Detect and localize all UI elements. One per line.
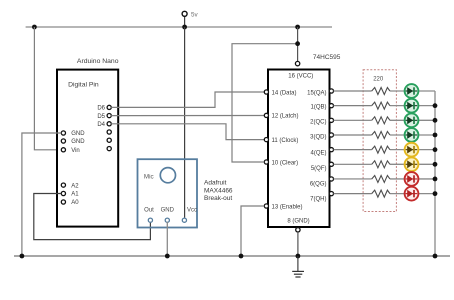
svg-text:4(QE): 4(QE) xyxy=(310,150,326,156)
svg-text:A1: A1 xyxy=(71,192,79,198)
svg-text:10 (Clear): 10 (Clear) xyxy=(272,160,299,166)
ground symbol xyxy=(292,256,304,277)
junction 5v-U2 xyxy=(295,25,300,30)
LED D3 xyxy=(405,113,419,127)
junction Enable-ground xyxy=(239,254,244,259)
svg-text:GND: GND xyxy=(71,131,85,137)
junction LED row 6 to cathode bus xyxy=(433,162,438,167)
svg-text:14 (Data): 14 (Data) xyxy=(272,90,297,96)
wire cathode bus right xyxy=(434,91,436,256)
wire output row 2 xyxy=(334,105,372,107)
junction GND-left xyxy=(20,254,25,259)
pin GND xyxy=(61,139,85,145)
wire ground bus bottom xyxy=(14,255,450,257)
wire pin10 Clear to VCC xyxy=(232,44,298,162)
wire mic GND to ground bus xyxy=(166,222,168,256)
pin A1 xyxy=(61,191,79,197)
svg-text:74HC595: 74HC595 xyxy=(313,54,341,61)
junction 5v-mic xyxy=(182,25,187,30)
microphone element circle xyxy=(160,168,175,183)
pin 13 (Enable) xyxy=(264,204,302,210)
junction 5v-Vin xyxy=(32,25,37,30)
resistor R7 220 xyxy=(372,175,390,182)
LED D5 xyxy=(405,143,419,157)
svg-text:A0: A0 xyxy=(71,200,79,206)
resistor R6 220 xyxy=(372,161,390,168)
resistor R8 220 xyxy=(372,190,390,197)
Arduino Nano U1 box xyxy=(57,70,118,227)
svg-text:8 (GND): 8 (GND) xyxy=(287,219,309,225)
resistor R5 220 xyxy=(372,146,390,153)
svg-text:13 (Enable): 13 (Enable) xyxy=(272,204,303,210)
LED D7 xyxy=(405,172,419,186)
svg-text:5v: 5v xyxy=(191,11,199,18)
svg-text:220: 220 xyxy=(373,77,384,83)
wire output row 8 xyxy=(334,193,372,195)
wire D4 to pin11 Clock xyxy=(111,124,264,140)
resistor R2 220 xyxy=(372,102,390,109)
wire A1 to mic Out xyxy=(34,194,151,240)
svg-text:7(QH): 7(QH) xyxy=(310,197,326,203)
wire output row 6 xyxy=(334,163,372,165)
wire pin8 GND to ground bus xyxy=(297,232,299,256)
svg-text:1(QB): 1(QB) xyxy=(310,105,326,111)
wire output row 4 xyxy=(334,134,372,136)
pin digital col 2 xyxy=(107,114,111,118)
pin 15(QA) xyxy=(307,89,333,97)
svg-text:16 (VCC): 16 (VCC) xyxy=(288,74,313,80)
svg-text:D6: D6 xyxy=(97,106,105,112)
svg-text:MAX4466: MAX4466 xyxy=(204,188,233,195)
svg-text:D4: D4 xyxy=(97,122,105,128)
wire output row 3 xyxy=(334,119,372,121)
LED D1 xyxy=(405,84,419,98)
junction U2 GND xyxy=(296,254,301,259)
pin 10 (Clear) xyxy=(264,160,298,166)
wire 5v to mic Vcc xyxy=(184,27,186,218)
pin digital col 1 xyxy=(107,105,111,109)
pin digital col 3 xyxy=(107,122,111,126)
svg-text:D5: D5 xyxy=(97,114,105,120)
mic pin Out xyxy=(144,207,154,222)
pin 16 (VCC) xyxy=(288,61,313,79)
mic pin Vcc xyxy=(182,207,197,222)
wire D6 to pin14 Data xyxy=(111,92,264,107)
wire output row 1 xyxy=(334,90,372,92)
LED D8 xyxy=(405,187,419,201)
wire D5 to pin12 Latch xyxy=(111,115,264,117)
resistor R4 220 xyxy=(372,131,390,138)
svg-text:Arduino Nano: Arduino Nano xyxy=(77,58,119,65)
svg-text:11 (Clock): 11 (Clock) xyxy=(272,138,299,144)
svg-text:Digital Pin: Digital Pin xyxy=(68,82,99,89)
pin 12 (Latch) xyxy=(264,113,298,119)
junction LED row 7 to cathode bus xyxy=(433,177,438,182)
svg-text:3(QD): 3(QD) xyxy=(310,134,326,140)
wire 5v to U2 pin16 xyxy=(297,27,299,61)
pin 3(QD) xyxy=(310,133,333,141)
junction Clear-VCC xyxy=(295,41,300,46)
resistor R3 220 xyxy=(372,117,390,124)
pin Vin xyxy=(61,148,79,154)
pin 4(QE) xyxy=(310,148,333,157)
wire GND to ground bus xyxy=(22,133,62,256)
svg-text:Vcc: Vcc xyxy=(187,207,197,213)
svg-text:12 (Latch): 12 (Latch) xyxy=(272,114,299,120)
pin GND xyxy=(61,131,85,137)
junction LED row 8 to cathode bus xyxy=(433,191,438,196)
shift register U2 74HC595 box xyxy=(268,70,330,228)
svg-text:Adafruit: Adafruit xyxy=(204,179,227,186)
pin 14 (Data) xyxy=(264,90,296,96)
pin 5(QF) xyxy=(311,162,334,172)
resistor R1 220 xyxy=(372,88,390,95)
mic breakout MIC1 board xyxy=(138,159,198,227)
pin 2(QC) xyxy=(310,118,333,125)
pin 8 (GND) xyxy=(287,219,309,232)
svg-text:Break-out: Break-out xyxy=(204,195,232,202)
junction LED row 5 to cathode bus xyxy=(433,147,438,152)
pin 7(QH) xyxy=(310,192,333,203)
svg-text:2(QC): 2(QC) xyxy=(310,120,326,126)
mic pin GND xyxy=(161,207,175,222)
svg-text:Out: Out xyxy=(144,207,154,213)
junction LED row 2 to cathode bus xyxy=(433,103,438,108)
svg-text:15(QA): 15(QA) xyxy=(307,90,326,96)
junction cathode bus to ground bus xyxy=(433,254,438,259)
wire pin13 Enable to ground xyxy=(241,206,264,256)
pin A0 xyxy=(61,200,79,206)
LED D2 xyxy=(405,99,419,113)
wire output row 7 xyxy=(334,178,372,180)
label Adafruit MAX4466 Break-out xyxy=(204,179,233,201)
svg-text:GND: GND xyxy=(71,139,85,145)
resistor pack dashed outline xyxy=(363,70,396,212)
pin A2 xyxy=(61,183,79,189)
wire 5v top rail xyxy=(26,26,332,28)
svg-text:A2: A2 xyxy=(71,183,79,189)
svg-text:5(QF): 5(QF) xyxy=(311,166,327,172)
svg-text:6(QG): 6(QG) xyxy=(310,181,327,187)
pin 1(QB) xyxy=(310,104,333,111)
svg-text:Mic: Mic xyxy=(144,173,154,180)
LED D6 xyxy=(405,157,419,171)
junction mic GND xyxy=(165,254,170,259)
power terminal 5v xyxy=(182,11,198,27)
junction LED row 4 to cathode bus xyxy=(433,133,438,138)
pin digital col 4 xyxy=(107,130,111,134)
pin 11 (Clock) xyxy=(264,138,298,144)
svg-text:Vin: Vin xyxy=(71,148,80,154)
junction LED row 3 to cathode bus xyxy=(433,118,438,123)
pin digital col 6 xyxy=(107,147,111,151)
pin 6(QG) xyxy=(310,177,334,187)
pin digital col 5 xyxy=(107,138,111,142)
wire output row 5 xyxy=(334,149,372,151)
LED D4 xyxy=(405,128,419,142)
svg-text:GND: GND xyxy=(161,207,175,213)
wire 5v to Vin xyxy=(34,27,61,150)
